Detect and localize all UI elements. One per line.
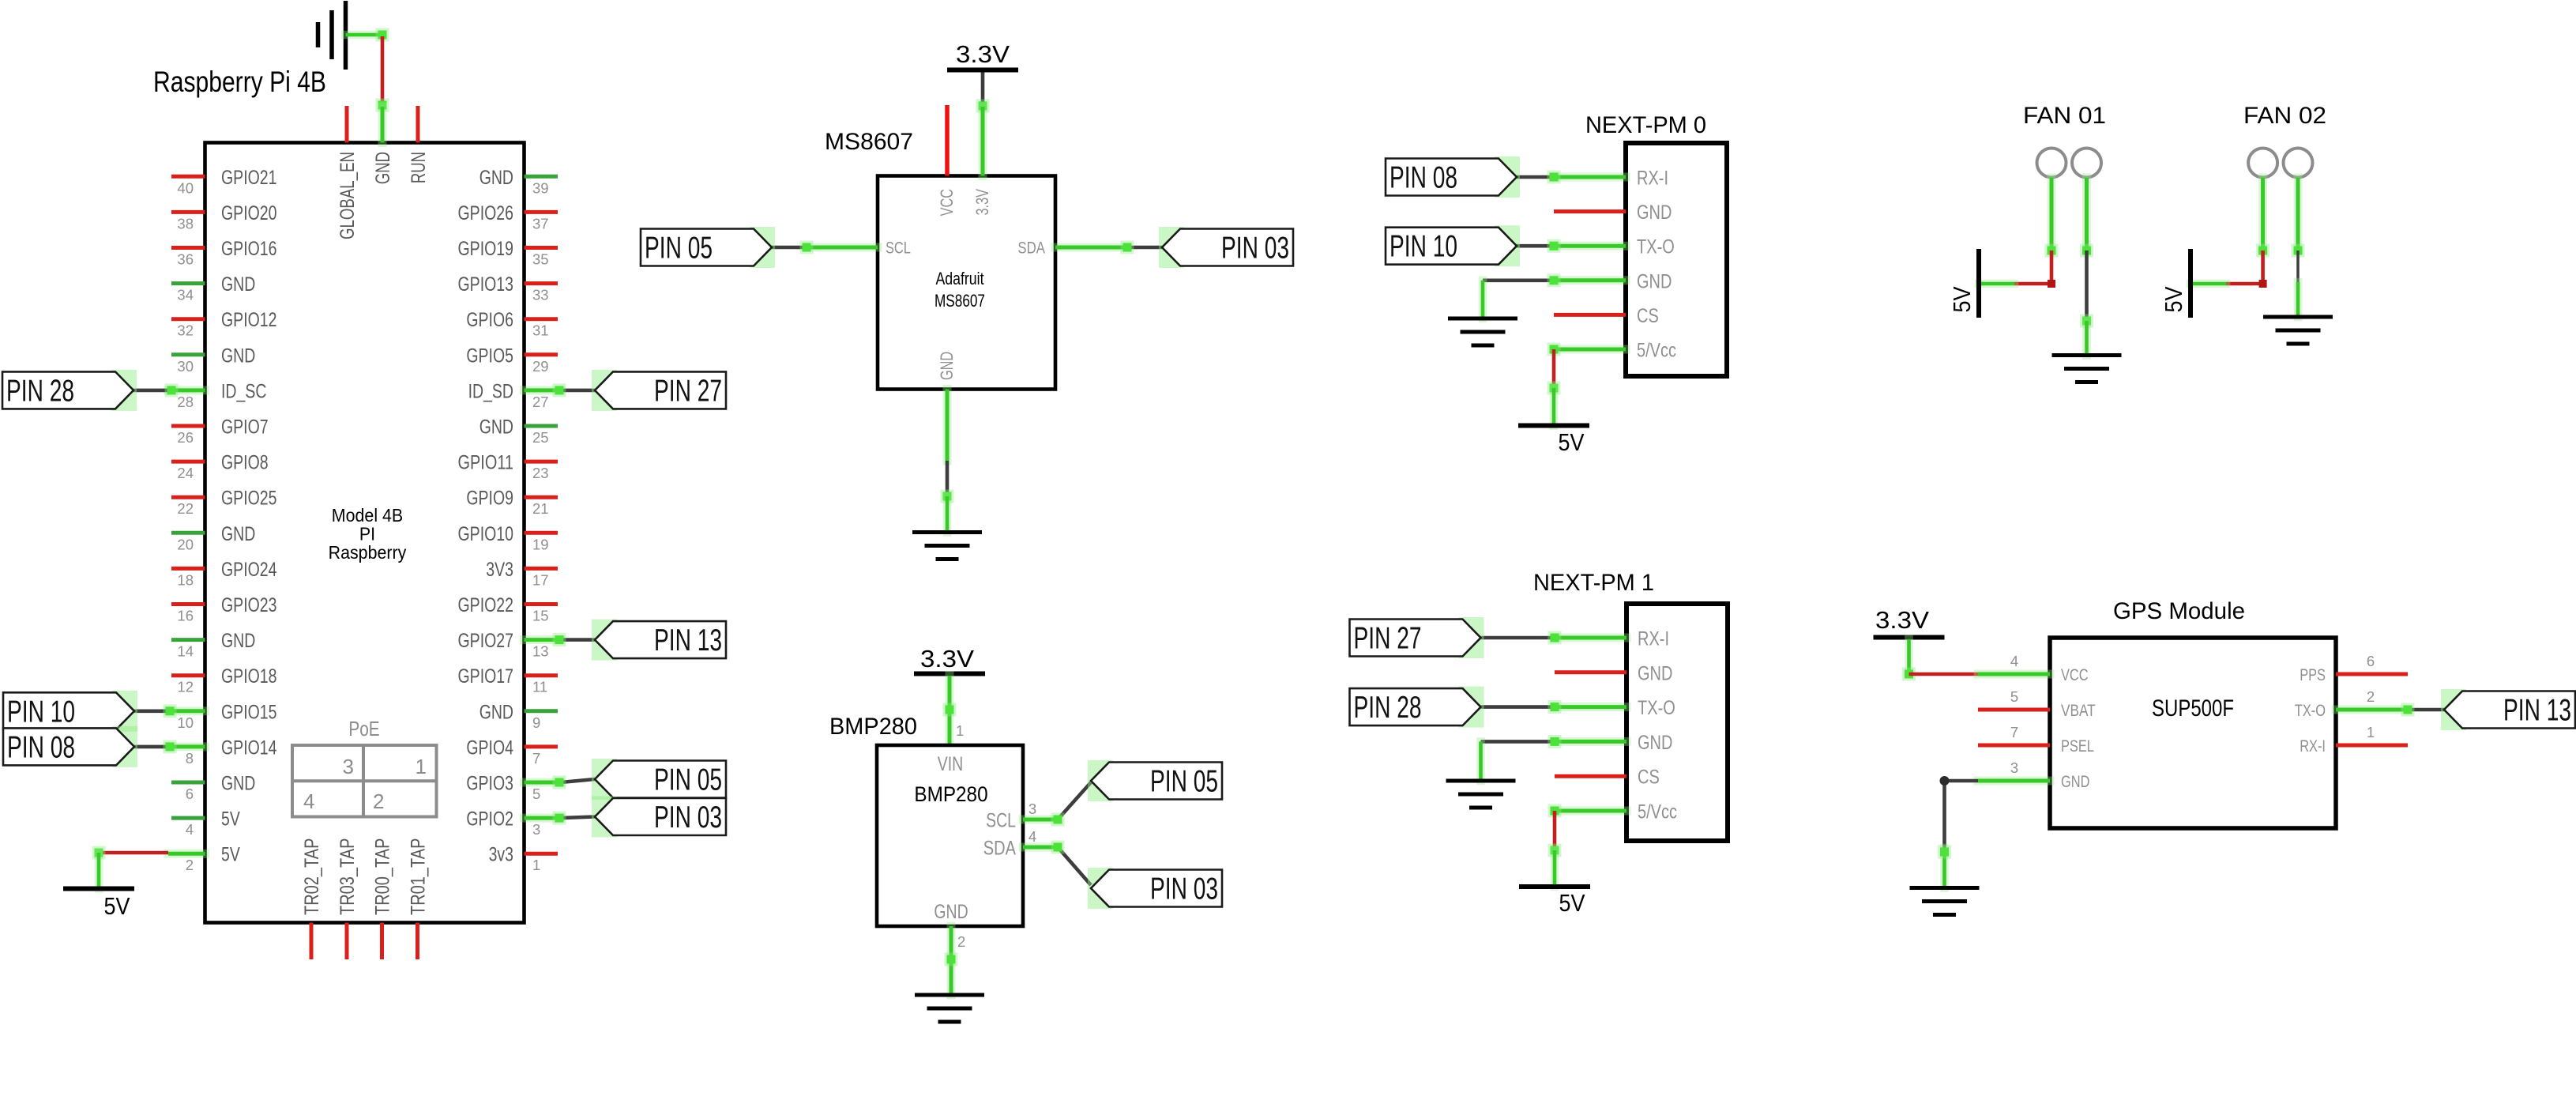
junction at GPIO2 leg xyxy=(553,812,566,825)
svg-text:35: 35 xyxy=(532,251,549,268)
svg-text:29: 29 xyxy=(532,358,549,375)
wire: PIN 10 to TX-O (black) xyxy=(1517,239,1561,253)
svg-text:6: 6 xyxy=(186,786,194,802)
svg-text:NEXT-PM 0: NEXT-PM 0 xyxy=(1585,112,1706,138)
power symbol 5V (FAN 02, rotated) xyxy=(2160,249,2191,318)
pin GND (NEXT-PM 1) xyxy=(1555,732,1672,754)
net label PIN 10 (to NEXT-PM 0 TX-O) xyxy=(1495,225,1520,266)
svg-text:30: 30 xyxy=(177,358,194,375)
junction on ground wire xyxy=(2080,315,2093,328)
pin 18 GPIO24 (Pi left) xyxy=(171,559,277,589)
svg-text:PIN 13: PIN 13 xyxy=(2503,694,2571,728)
svg-text:VBAT: VBAT xyxy=(2061,702,2096,720)
pin 20 GND (Pi left) xyxy=(171,523,255,553)
wire: ground symbol leg (green) xyxy=(346,31,383,40)
ground symbol (below MS8607) xyxy=(912,533,982,559)
svg-text:3: 3 xyxy=(343,755,354,778)
svg-text:VCC: VCC xyxy=(937,189,957,216)
pin VCC (MS8607 top, unconnected red) xyxy=(937,105,957,216)
svg-text:GPIO14: GPIO14 xyxy=(221,737,277,759)
svg-text:17: 17 xyxy=(532,571,549,588)
svg-text:GPIO15: GPIO15 xyxy=(221,701,277,723)
junction FAN02-2 xyxy=(2292,244,2305,258)
svg-text:4: 4 xyxy=(2010,653,2018,669)
svg-text:Raspberry: Raspberry xyxy=(329,542,407,563)
svg-text:12: 12 xyxy=(177,679,194,695)
pin 35 GPIO19 (Pi right) xyxy=(458,238,558,268)
wire: TX-O to PIN 13 (black) xyxy=(2401,703,2445,717)
svg-text:GPIO19: GPIO19 xyxy=(458,238,514,260)
wire: PIN 05 to SCL (black) xyxy=(772,246,807,250)
svg-text:GPIO10: GPIO10 xyxy=(458,523,514,545)
label: Model 4B PI Raspberry (part label) xyxy=(329,505,407,563)
pin GND (MS8607 bottom) xyxy=(937,352,957,461)
svg-text:MS8607: MS8607 xyxy=(825,129,913,155)
svg-text:16: 16 xyxy=(177,608,194,624)
svg-text:5V: 5V xyxy=(221,844,240,866)
junction on GND wire xyxy=(945,953,958,966)
svg-text:3.3V: 3.3V xyxy=(956,40,1010,68)
svg-text:GLOBAL_EN: GLOBAL_EN xyxy=(337,152,359,239)
svg-text:39: 39 xyxy=(532,179,549,196)
net label PIN 05 (to GPIO3 pin 5) xyxy=(592,759,617,800)
wire: ID_SD to PIN 27 (black) xyxy=(561,389,595,393)
svg-text:GPIO12: GPIO12 xyxy=(221,309,277,331)
pin SDA (MS8607 right) xyxy=(1017,239,1127,258)
net label PIN 05 (to MS8607 SCL) xyxy=(750,227,775,268)
pin GND (BMP280 pin 2, bottom) xyxy=(934,901,968,995)
pin RX-I (NEXT-PM 1) xyxy=(1555,628,1669,650)
label: GPS Module title xyxy=(2113,598,2245,624)
pin CS (NEXT-PM 1) xyxy=(1555,767,1660,789)
connector FAN 01 pin 2 (circle) xyxy=(2072,149,2101,178)
svg-text:GPIO8: GPIO8 xyxy=(221,452,269,474)
svg-text:TR03_TAP: TR03_TAP xyxy=(337,838,359,916)
junction at 5V wire corner xyxy=(92,846,106,860)
svg-text:RUN: RUN xyxy=(408,152,430,183)
svg-text:RX-I: RX-I xyxy=(1638,628,1669,650)
pin 11 GPIO17 (Pi right) xyxy=(458,665,558,695)
svg-text:GND: GND xyxy=(372,152,394,184)
svg-text:3v3: 3v3 xyxy=(489,844,513,866)
IC U3: BMP280 body xyxy=(877,745,1023,926)
svg-text:3: 3 xyxy=(1029,801,1036,817)
pin 1 RX-I (GPS, red) xyxy=(2300,724,2408,755)
svg-text:RX-I: RX-I xyxy=(1637,168,1668,190)
wire: GPIO3 to PIN 05 (black) xyxy=(561,779,595,782)
wire: FAN02-2 to ground (black) xyxy=(2296,251,2300,282)
pin 6 PPS (GPS, red) xyxy=(2300,653,2408,684)
ground symbol (FAN 02) xyxy=(2263,317,2333,344)
IC U2: MS8607 body xyxy=(878,176,1055,390)
junction FAN02-1 xyxy=(2256,244,2270,258)
svg-text:GPIO2: GPIO2 xyxy=(466,808,513,831)
pin 21 GPIO9 (Pi right) xyxy=(466,488,558,518)
pin 5 GPIO3 (Pi right) xyxy=(466,773,561,803)
svg-text:SCL: SCL xyxy=(886,239,911,258)
wire: 5/Vcc corner (red) xyxy=(1548,804,1562,851)
pin 29 GPIO5 (Pi right) xyxy=(466,345,558,375)
connector FAN 01 pin 1 (circle) xyxy=(2037,149,2066,178)
wire: FAN02-1 to 5V (red) xyxy=(2226,251,2267,288)
junction at SCL leg xyxy=(800,241,814,254)
svg-text:5V: 5V xyxy=(2160,286,2187,312)
connector FAN 02 pin 1 (circle) xyxy=(2248,149,2277,178)
svg-text:PIN 28: PIN 28 xyxy=(1354,691,1422,725)
svg-text:SDA: SDA xyxy=(983,838,1016,860)
svg-text:PIN 27: PIN 27 xyxy=(1354,622,1422,656)
junction at SCL leg xyxy=(1051,813,1065,827)
pin number 1 (VIN) xyxy=(956,722,964,739)
svg-text:37: 37 xyxy=(532,215,549,232)
wire: GND to ground (black) xyxy=(1483,273,1561,287)
power symbol 3.3V (above BMP280) xyxy=(914,645,985,674)
svg-text:18: 18 xyxy=(177,571,194,588)
pin 2 5V (Pi left) xyxy=(168,844,240,874)
svg-text:GPIO22: GPIO22 xyxy=(458,594,514,616)
pin 9 GND (Pi right) xyxy=(479,701,558,731)
pin 4 5V (Pi left) xyxy=(171,808,240,838)
svg-text:BMP280: BMP280 xyxy=(829,714,917,740)
pin 37 GPIO26 (Pi right) xyxy=(458,202,558,232)
pin 6 GND (Pi left) xyxy=(171,773,255,803)
pin 33 GPIO13 (Pi right) xyxy=(458,273,558,303)
pin 15 GPIO22 (Pi right) xyxy=(458,594,558,624)
pin 25 GND (Pi right) xyxy=(479,416,558,446)
svg-text:24: 24 xyxy=(177,465,194,481)
svg-text:36: 36 xyxy=(177,251,194,268)
svg-text:ID_SC: ID_SC xyxy=(221,380,266,402)
svg-text:SDA: SDA xyxy=(1017,239,1045,258)
junction at 3.3V corner xyxy=(1902,668,1916,681)
pin TX-O (NEXT-PM 1) xyxy=(1555,697,1675,719)
svg-text:5V: 5V xyxy=(104,892,130,920)
pin 34 GND (Pi left) xyxy=(171,273,255,303)
wire: ground leg (green) xyxy=(2082,321,2091,356)
net label PIN 13 (to GPIO27 pin 13) xyxy=(592,620,617,661)
svg-text:GPIO20: GPIO20 xyxy=(221,202,277,224)
svg-text:GPIO13: GPIO13 xyxy=(458,273,514,296)
net label PIN 05 (to BMP280 SCL) xyxy=(1088,760,1113,801)
pin 32 GPIO12 (Pi left) xyxy=(171,309,277,339)
pin 38 GPIO20 (Pi left) xyxy=(171,202,277,232)
ground symbol (NEXT-PM 1) xyxy=(1446,781,1516,808)
wire: 5V symbol leg (green) xyxy=(2191,280,2226,288)
svg-text:GND: GND xyxy=(479,416,513,439)
wire: 5V symbol leg (green) xyxy=(1550,388,1559,426)
IC U5: NEXT-PM 1 body xyxy=(1626,604,1728,841)
svg-text:5/Vcc: 5/Vcc xyxy=(1637,340,1676,362)
svg-text:9: 9 xyxy=(532,714,540,731)
wire: ground symbol leg (green) xyxy=(1940,848,1949,888)
pin 5/Vcc (NEXT-PM 1) xyxy=(1555,801,1677,823)
label: Adafruit MS8607 (part label) xyxy=(935,269,985,311)
svg-text:FAN 02: FAN 02 xyxy=(2243,103,2326,129)
junction at top GND leg xyxy=(376,99,389,112)
label: SUP500F (part label) xyxy=(2152,695,2234,722)
svg-text:GND: GND xyxy=(221,523,255,545)
svg-text:5V: 5V xyxy=(1559,889,1585,917)
pin GND (NEXT-PM 0) xyxy=(1554,202,1672,224)
svg-text:1: 1 xyxy=(2367,724,2375,740)
svg-text:GPIO16: GPIO16 xyxy=(221,238,277,260)
pin 1 3v3 (Pi right) xyxy=(489,844,558,874)
junction at ID_SC leg xyxy=(165,383,179,397)
svg-text:GND: GND xyxy=(2061,773,2089,791)
label: FAN 01 title xyxy=(2023,103,2106,129)
svg-text:GND: GND xyxy=(221,273,255,296)
label: NEXT-PM 1 title xyxy=(1533,570,1654,596)
pin 31 GPIO6 (Pi right) xyxy=(466,309,558,339)
svg-text:15: 15 xyxy=(532,608,549,624)
svg-text:PIN 13: PIN 13 xyxy=(654,624,722,657)
svg-text:1: 1 xyxy=(416,755,427,778)
pin 7 PSEL (GPS, red) xyxy=(1978,724,2094,755)
wire: PIN 28 to TX-O (black) xyxy=(1481,700,1562,714)
pin GND (NEXT-PM 1) xyxy=(1555,662,1672,684)
svg-text:GND: GND xyxy=(221,345,255,367)
pin 30 GND (Pi left) xyxy=(171,345,255,375)
svg-text:CS: CS xyxy=(1637,305,1659,327)
PoE header box xyxy=(292,717,437,817)
svg-text:PIN 03: PIN 03 xyxy=(1150,872,1218,906)
junction on 5V wire xyxy=(1547,382,1561,395)
svg-text:5V: 5V xyxy=(1559,428,1585,456)
svg-text:NEXT-PM 1: NEXT-PM 1 xyxy=(1533,570,1654,596)
pin 36 GPIO16 (Pi left) xyxy=(171,238,277,268)
junction FAN01-1 xyxy=(2045,244,2059,258)
wire: 3.3V symbol leg (green) xyxy=(1905,639,1913,674)
svg-text:TR01_TAP: TR01_TAP xyxy=(408,838,430,916)
pin SCL (MS8607 left) xyxy=(807,239,911,258)
svg-text:8: 8 xyxy=(186,750,194,767)
svg-text:25: 25 xyxy=(532,429,549,446)
junction at SDA leg xyxy=(1121,241,1134,254)
svg-text:GND: GND xyxy=(934,901,968,923)
power symbol 5V (FAN 01, rotated) xyxy=(1948,249,1979,318)
svg-text:5V: 5V xyxy=(1948,286,1976,312)
pin 10 GPIO15 (Pi left) xyxy=(168,701,277,731)
wire: 5V symbol leg (green) xyxy=(1979,280,2014,288)
pin 2 TX-O (GPS) xyxy=(2295,688,2408,720)
svg-text:GND: GND xyxy=(1638,732,1672,754)
pin 12 GPIO18 (Pi left) xyxy=(171,665,277,695)
svg-text:PIN 08: PIN 08 xyxy=(1390,161,1457,195)
wire: 3.3V to VIN (green) xyxy=(946,676,954,745)
svg-text:GND: GND xyxy=(221,773,255,795)
svg-text:4: 4 xyxy=(1029,828,1036,845)
pin 40 GPIO21 (Pi left) xyxy=(171,167,277,197)
net label PIN 08 (to GPIO14 pin 8) xyxy=(112,726,137,767)
pin 24 GPIO8 (Pi left) xyxy=(171,452,269,482)
svg-text:GPIO25: GPIO25 xyxy=(221,488,277,510)
svg-text:2: 2 xyxy=(373,789,384,813)
svg-text:PIN 27: PIN 27 xyxy=(654,374,722,408)
pin 14 GND (Pi left) xyxy=(171,630,255,660)
svg-text:GPIO18: GPIO18 xyxy=(221,665,277,688)
svg-text:7: 7 xyxy=(2010,724,2018,740)
svg-text:33: 33 xyxy=(532,287,549,303)
net label PIN 08 (to NEXT-PM 0 RX-I) xyxy=(1495,156,1520,198)
svg-text:VIN: VIN xyxy=(938,753,964,775)
label: FAN 02 title xyxy=(2243,103,2326,129)
pin 5 VBAT (GPS, red) xyxy=(1978,688,2096,720)
svg-text:GPIO7: GPIO7 xyxy=(221,416,269,439)
svg-text:5: 5 xyxy=(2010,688,2018,705)
svg-text:GPIO21: GPIO21 xyxy=(221,167,277,189)
svg-text:GPIO3: GPIO3 xyxy=(466,773,513,795)
pin SDA (BMP280 pin 4) xyxy=(983,828,1058,860)
svg-text:GND: GND xyxy=(1637,202,1672,224)
pin GLOBAL_EN (Pi top, unconnected red) xyxy=(337,106,359,239)
pin 23 GPIO11 (Pi right) xyxy=(458,452,558,482)
wire: ground leg (green) xyxy=(1476,741,1485,781)
svg-text:FAN 01: FAN 01 xyxy=(2023,103,2106,129)
label: BMP280 (part label inside) xyxy=(914,782,987,806)
power symbol 5V (below NEXT-PM 1) xyxy=(1519,887,1590,917)
power symbol 5V (below NEXT-PM 0) xyxy=(1518,426,1589,457)
svg-text:3: 3 xyxy=(2010,759,2018,776)
svg-text:GND: GND xyxy=(221,630,255,652)
junction at GPIO15 leg xyxy=(164,704,177,718)
svg-text:34: 34 xyxy=(177,287,194,303)
label: MS8607 title xyxy=(825,129,913,155)
wire: PIN 08 to RX-I (black) xyxy=(1517,171,1561,184)
wire: 3.3V symbol pin (black) xyxy=(981,73,985,106)
pin CS (NEXT-PM 0) xyxy=(1554,305,1659,327)
svg-text:VCC: VCC xyxy=(2061,666,2089,684)
junction at GPIO14 leg xyxy=(164,740,177,753)
svg-text:3V3: 3V3 xyxy=(486,559,513,581)
junction at SDA leg xyxy=(1051,841,1065,854)
wire: PIN 08 to GPIO14 (black) xyxy=(134,745,168,749)
wire: SDA to PIN 03 (black) xyxy=(1127,246,1162,250)
wire: 5V symbol leg (green) xyxy=(1551,850,1559,887)
svg-text:3.3V: 3.3V xyxy=(1875,606,1929,634)
svg-text:GPIO17: GPIO17 xyxy=(458,665,514,688)
power symbol 3.3V (above MS8607) xyxy=(947,40,1018,70)
svg-text:10: 10 xyxy=(177,714,194,731)
pin 39 GND (Pi right) xyxy=(479,167,558,197)
IC U6: GPS SUP500F body xyxy=(2050,638,2336,828)
svg-text:RX-I: RX-I xyxy=(2300,737,2326,755)
pin TR02_TAP (Pi bottom, unconnected red) xyxy=(301,838,323,960)
pin RX-I (NEXT-PM 0) xyxy=(1554,168,1668,190)
svg-text:3.3V: 3.3V xyxy=(972,189,992,216)
pin 3.3V (MS8607 top, connected green) xyxy=(972,107,992,216)
pin 28 ID_SC (Pi left) xyxy=(168,380,266,410)
pin 3 GND (GPS) xyxy=(1978,759,2089,791)
svg-text:PI: PI xyxy=(359,524,375,544)
junction at 3.3V leg xyxy=(976,100,990,113)
wire: 5V symbol leg (green) xyxy=(95,853,103,889)
svg-text:3.3V: 3.3V xyxy=(920,645,974,673)
pin leg FAN01-2 (green) xyxy=(2082,178,2091,251)
svg-text:TX-O: TX-O xyxy=(1638,697,1675,719)
net label PIN 03 (to BMP280 SDA) xyxy=(1088,868,1113,909)
pin 4 VCC (GPS) xyxy=(1978,653,2089,684)
svg-text:11: 11 xyxy=(532,679,547,695)
junction at ID_SD leg xyxy=(553,383,566,397)
wire: PIN 10 to GPIO15 (black) xyxy=(134,709,168,713)
junction at GPIO3 leg xyxy=(553,776,566,789)
svg-text:2: 2 xyxy=(186,857,194,873)
svg-text:GPIO6: GPIO6 xyxy=(466,309,513,331)
svg-text:27: 27 xyxy=(532,394,549,410)
svg-text:GND: GND xyxy=(1637,270,1672,292)
svg-text:31: 31 xyxy=(532,322,549,339)
svg-text:CS: CS xyxy=(1638,767,1660,789)
svg-text:PIN 28: PIN 28 xyxy=(6,374,74,408)
pin GND (Pi top, connected green) xyxy=(372,107,394,184)
svg-text:GPIO23: GPIO23 xyxy=(221,594,277,616)
wire: GND to ground (black) xyxy=(1481,735,1562,748)
pin 19 GPIO10 (Pi right) xyxy=(458,523,558,553)
wire: GND to ground (black) xyxy=(946,461,950,496)
pin RUN (Pi top, unconnected red) xyxy=(408,106,430,183)
svg-text:MS8607: MS8607 xyxy=(935,291,985,311)
net label PIN 03 (to GPIO2 pin 3) xyxy=(592,797,617,838)
svg-text:21: 21 xyxy=(532,500,549,517)
svg-text:Model 4B: Model 4B xyxy=(332,505,403,526)
wire: ground leg (green) xyxy=(2294,282,2303,317)
svg-text:TR00_TAP: TR00_TAP xyxy=(372,838,394,916)
svg-text:ID_SD: ID_SD xyxy=(468,380,513,402)
wire: GPIO27 to PIN 13 (black) xyxy=(561,638,595,642)
wire: ground leg (green) xyxy=(1479,281,1487,318)
pin TX-O (NEXT-PM 0) xyxy=(1554,236,1675,258)
junction on GND wire xyxy=(941,490,954,503)
pin leg FAN02-2 (green) xyxy=(2294,178,2303,251)
svg-text:26: 26 xyxy=(177,429,194,446)
svg-text:PIN 03: PIN 03 xyxy=(654,801,722,835)
power symbol 3.3V (GPS) xyxy=(1874,606,1945,638)
svg-text:GPIO26: GPIO26 xyxy=(458,202,514,224)
pin TR00_TAP (Pi bottom, unconnected red) xyxy=(372,838,394,960)
pin 8 GPIO14 (Pi left) xyxy=(168,737,277,767)
svg-text:32: 32 xyxy=(177,322,194,339)
pin 27 ID_SD (Pi right) xyxy=(468,380,561,410)
svg-text:GPIO4: GPIO4 xyxy=(466,737,513,759)
net label PIN 27 (to ID_SD pin 27) xyxy=(592,370,617,411)
svg-text:GND: GND xyxy=(937,352,957,380)
pin 16 GPIO23 (Pi left) xyxy=(171,594,277,624)
pin SCL (BMP280 pin 3) xyxy=(986,801,1058,832)
pin 7 GPIO4 (Pi right) xyxy=(466,737,558,767)
pin 13 GPIO27 (Pi right) xyxy=(458,630,562,660)
svg-text:4: 4 xyxy=(186,821,194,838)
wire: FAN01-1 to 5V (red) xyxy=(2014,251,2055,288)
svg-text:GND: GND xyxy=(1638,662,1672,684)
svg-text:4: 4 xyxy=(303,789,314,813)
svg-text:GPIO5: GPIO5 xyxy=(466,345,513,367)
svg-text:6: 6 xyxy=(2367,653,2375,669)
ground symbol (below BMP280) xyxy=(915,995,984,1022)
svg-text:PIN 03: PIN 03 xyxy=(1221,232,1289,266)
IC U1: Raspberry Pi 4B body xyxy=(205,143,525,923)
power symbol 5V (bottom left) xyxy=(63,889,134,921)
svg-text:23: 23 xyxy=(532,465,549,481)
pin 3 GPIO2 (Pi right) xyxy=(466,808,561,838)
svg-text:1: 1 xyxy=(956,722,964,739)
svg-text:20: 20 xyxy=(177,536,194,552)
svg-text:GPIO11: GPIO11 xyxy=(458,452,514,474)
svg-text:GPIO24: GPIO24 xyxy=(221,559,277,581)
svg-text:5V: 5V xyxy=(221,808,240,831)
svg-text:2: 2 xyxy=(957,933,965,950)
svg-text:14: 14 xyxy=(177,643,194,660)
net label PIN 28 (to NEXT-PM 1 TX-O) xyxy=(1459,687,1484,728)
